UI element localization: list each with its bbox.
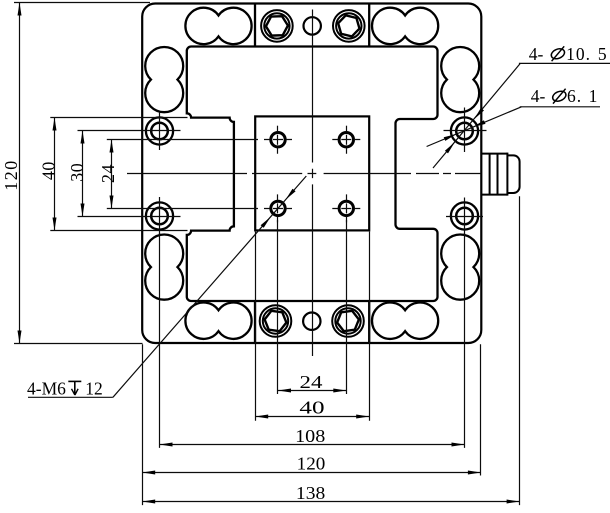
M6 tapped hole bottom-right <box>339 201 353 215</box>
horizontal centerline <box>127 173 481 175</box>
svg-text:108: 108 <box>295 426 325 446</box>
crosshair right-bottom hole <box>446 216 483 218</box>
bottom strip left edge <box>254 301 256 343</box>
crosshair M6 hole top-left <box>264 139 292 141</box>
hex socket screw top-right <box>333 10 365 42</box>
dimension 40 bottom <box>255 416 369 418</box>
svg-text:1: 1 <box>589 86 598 106</box>
dimension 30 left <box>82 131 84 217</box>
svg-text:138: 138 <box>296 483 325 503</box>
svg-text:24: 24 <box>300 372 323 392</box>
svg-text:4-: 4- <box>529 44 544 64</box>
leader 4-dia10.5 <box>433 63 520 168</box>
corner cutout top-left <box>185 8 251 44</box>
svg-text:5: 5 <box>598 44 607 64</box>
hex socket screw top-left <box>261 10 293 42</box>
extension lines bottom dims <box>277 220 279 394</box>
hex socket screw bottom-left <box>260 305 292 337</box>
extension lines left dims <box>14 2 150 4</box>
svg-text:10.: 10. <box>566 44 591 64</box>
counterbored hole right-bottom outer <box>451 202 478 229</box>
crosshair M6 hole bottom-right <box>332 208 360 210</box>
crosshair M6 hole bottom-left <box>264 208 292 210</box>
corner cutout bottom-right <box>372 302 438 338</box>
bottom center hole <box>303 313 320 330</box>
svg-text:40: 40 <box>299 398 324 418</box>
crosshair left-top hole <box>142 130 181 132</box>
hex socket screw bottom-right <box>332 305 364 337</box>
top center hole <box>304 17 321 34</box>
svg-text:6.: 6. <box>567 86 582 106</box>
dimension 120 left <box>19 3 21 344</box>
svg-text:120: 120 <box>1 159 21 191</box>
svg-text:4-: 4- <box>531 86 546 106</box>
dimension 24 bottom <box>278 390 346 392</box>
M6 tapped hole bottom-left <box>271 201 285 215</box>
connector cap <box>507 155 519 193</box>
central mounting square <box>255 116 369 230</box>
corner cutout bottom-left <box>185 302 251 338</box>
leader 4-dia6.1 <box>427 107 522 147</box>
side cutout left-bottom <box>145 235 183 300</box>
crosshair right-top hole <box>444 130 487 132</box>
top strip right edge <box>368 4 370 47</box>
dimension 24 left <box>111 140 113 209</box>
crosshair M6 hole top-right <box>332 139 360 141</box>
crosshair left-bottom hole <box>142 216 181 218</box>
svg-text:24: 24 <box>98 164 118 183</box>
bottom strip right edge <box>368 301 370 343</box>
corner cutout top-right <box>372 8 438 44</box>
svg-text:30: 30 <box>67 163 87 182</box>
counterbored hole left-top inner <box>151 123 168 140</box>
counterbored hole left-top outer <box>146 117 173 144</box>
counterbored hole left-bottom outer <box>146 202 173 229</box>
dimension 40 left <box>54 118 56 231</box>
vertical centerline <box>312 10 314 357</box>
plate outline <box>142 4 481 344</box>
M6 tapped hole top-left <box>271 133 285 147</box>
counterbored hole right-top inner <box>456 123 473 140</box>
svg-text:40: 40 <box>38 161 58 180</box>
connector body <box>481 153 507 155</box>
leader 4-M6 depth 12 <box>113 176 306 397</box>
top strip left edge <box>254 4 256 47</box>
M6 tapped hole top-right <box>339 133 353 147</box>
side cutout left-top <box>145 47 183 112</box>
dimension 120 bottom <box>142 472 481 474</box>
counterbored hole right-top outer <box>451 117 478 144</box>
inner flexure cavity contour <box>187 47 438 302</box>
side cutout right-top <box>441 47 479 112</box>
dimension 138 bottom <box>142 501 519 503</box>
svg-text:120: 120 <box>297 454 326 474</box>
counterbored hole right-bottom inner <box>456 208 473 225</box>
counterbored hole left-bottom inner <box>151 208 168 225</box>
svg-text:4-M6: 4-M6 <box>27 378 66 398</box>
dimension 108 bottom <box>160 444 465 446</box>
side cutout right-bottom <box>441 235 479 300</box>
svg-text:12: 12 <box>85 378 103 398</box>
